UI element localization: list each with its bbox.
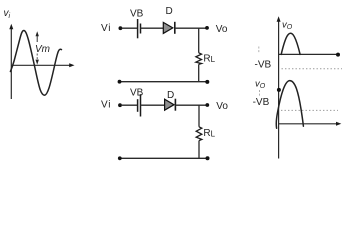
svg-text:Vi: Vi: [101, 23, 111, 34]
svg-text:Vo: Vo: [216, 101, 228, 112]
svg-text:D: D: [166, 6, 173, 17]
svg-text:-VB: -VB: [255, 59, 272, 70]
svg-text:vO: vO: [255, 78, 266, 90]
svg-text:VB: VB: [130, 9, 144, 20]
svg-text:RL: RL: [203, 128, 215, 139]
svg-text:D: D: [167, 90, 174, 101]
svg-text:-VB: -VB: [253, 97, 270, 108]
svg-text:VB: VB: [130, 88, 144, 99]
svg-text:vO: vO: [282, 20, 293, 32]
svg-text:RL: RL: [203, 54, 215, 65]
svg-text:Vi: Vi: [101, 100, 111, 111]
svg-text:Vm: Vm: [35, 44, 50, 55]
svg-text:Vo: Vo: [216, 24, 228, 35]
svg-text:vi: vi: [4, 8, 11, 20]
